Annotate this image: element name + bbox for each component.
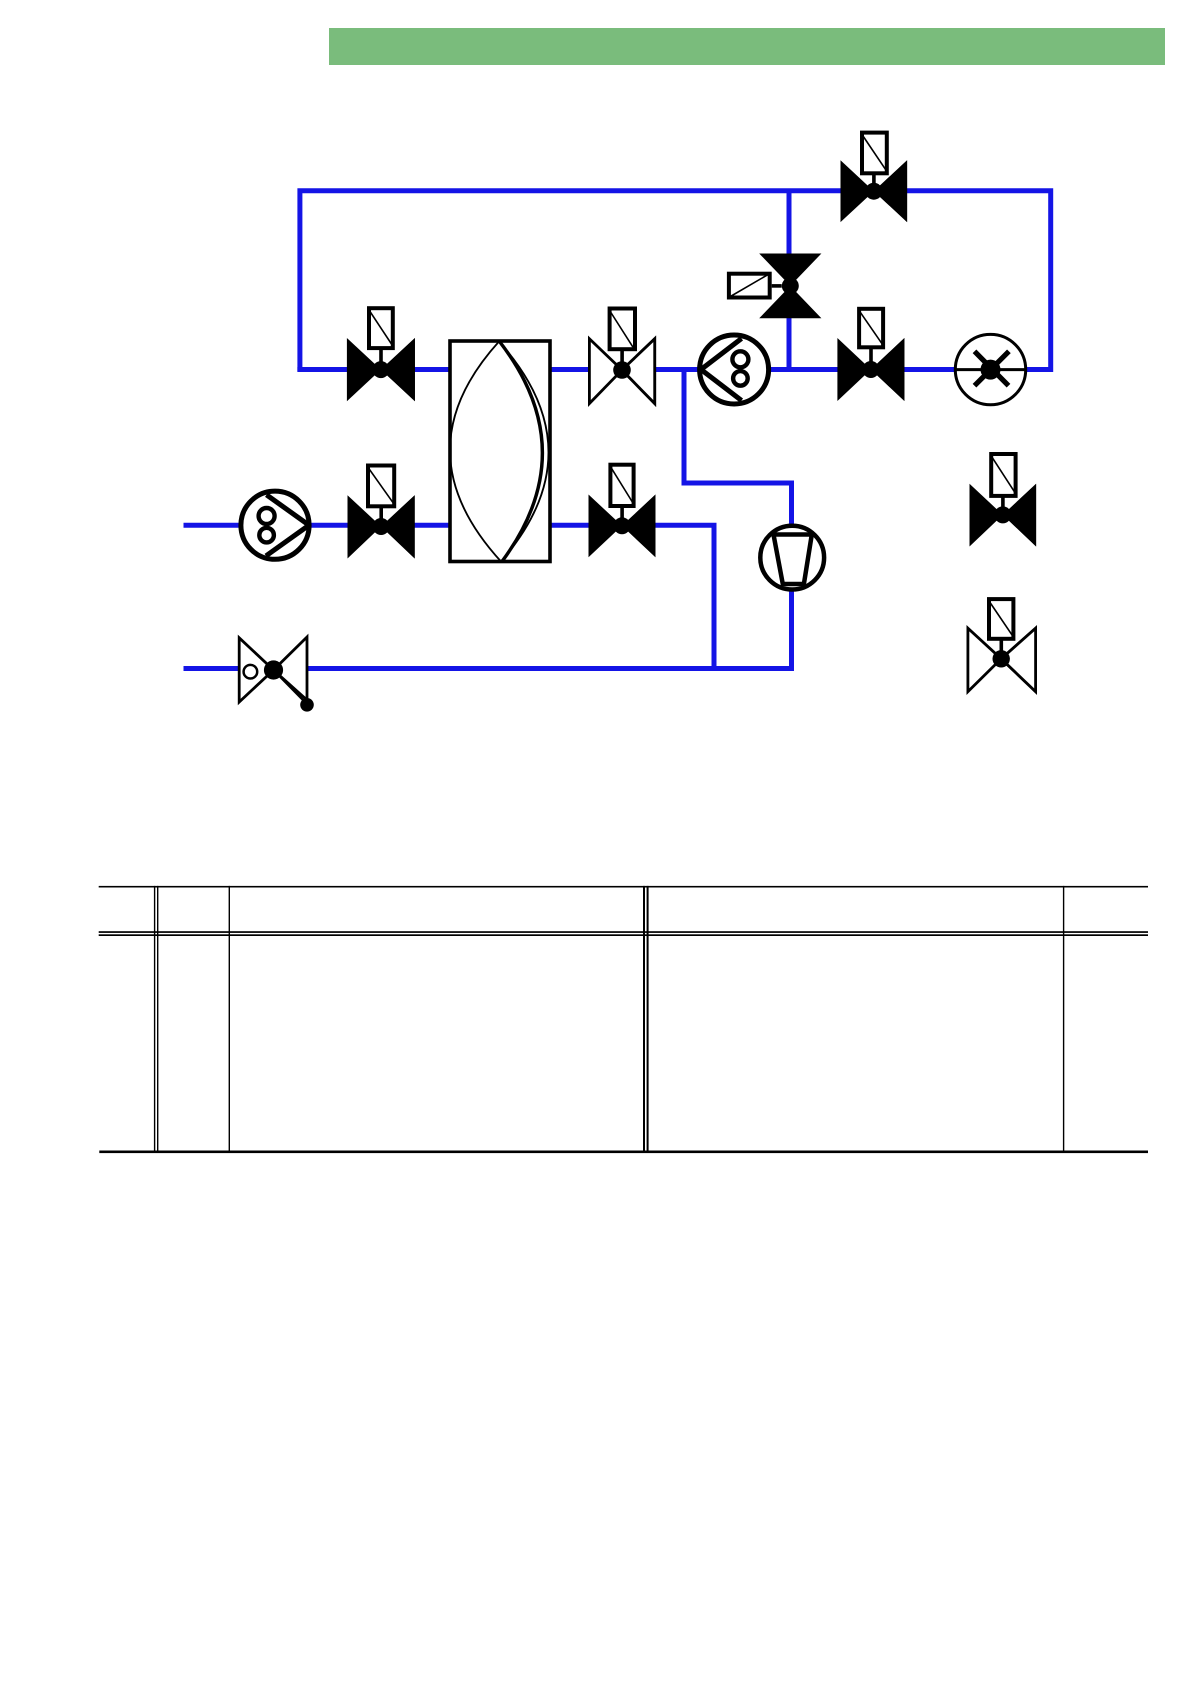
valve V1 (row1 left, motorized shut-off) <box>347 308 415 401</box>
header separator double rule <box>99 931 1148 933</box>
valve V2 (row1, control valve white with dot) <box>589 309 654 404</box>
valve V3 (row1 right, motorized) <box>837 309 904 401</box>
balancing valve (circle with X) <box>955 334 1025 404</box>
valve V6 (row2 right, motorized) <box>589 465 656 558</box>
bottom rule <box>99 1151 1148 1154</box>
valve V5 (row2 left, motorized) <box>348 466 415 559</box>
green title bar <box>329 28 1165 65</box>
top rule <box>99 886 1148 888</box>
wire: supply row 1 <box>297 367 990 372</box>
column rules <box>154 886 155 1152</box>
wire: main loop (left riser, top header, right riser) <box>300 191 1051 372</box>
pump P2 (row 2, triangle right, '8') <box>241 491 309 559</box>
valve V10 (vertical valve on riser with side actuator) <box>729 254 822 319</box>
valve V7 (standalone right, motorized) <box>970 454 1037 547</box>
wire: row 2 from left to down elbow <box>184 525 715 671</box>
pump P1 (row 1, triangle left, '8') <box>700 335 769 404</box>
pump P3 (bypass, trapezoid) <box>760 526 824 590</box>
wire: branch riser x789 (top header to row 1) <box>787 191 792 372</box>
valve V9 (bottom left, with gauge circle and drain) <box>239 637 314 712</box>
valve V8 (standalone right, control valve white with dot) <box>968 599 1036 692</box>
table <box>99 886 1148 1153</box>
heat exchanger W1 <box>450 341 550 562</box>
wire: bypass from row1 down, across, down through pump P3, bottom return to left <box>184 368 792 669</box>
valve V4 (top header, motorized) <box>841 133 908 223</box>
